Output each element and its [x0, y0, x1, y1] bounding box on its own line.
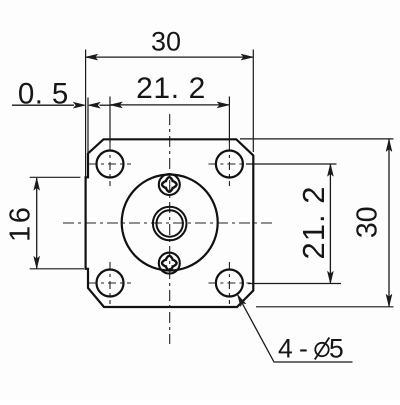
svg-text:30: 30 [352, 206, 384, 238]
svg-text:5: 5 [329, 334, 344, 364]
svg-text:21. 2: 21. 2 [136, 72, 206, 105]
svg-text:21. 2: 21. 2 [296, 186, 331, 260]
svg-text:4: 4 [278, 334, 293, 364]
svg-text:-: - [299, 334, 308, 364]
svg-text:16: 16 [5, 205, 37, 242]
svg-text:30: 30 [151, 27, 181, 57]
svg-text:0. 5: 0. 5 [18, 77, 69, 110]
